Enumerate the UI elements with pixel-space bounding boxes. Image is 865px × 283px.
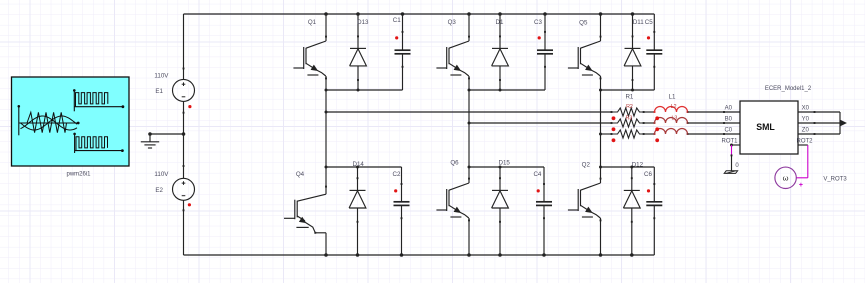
svg-text:ω: ω (783, 174, 789, 183)
red flag on E2 (188, 203, 191, 206)
wire: top DC bus (184, 13, 655, 15)
wire: leg 1 lower rail (326, 166, 402, 168)
wire: phase A output (326, 111, 612, 113)
svg-text:D15: D15 (499, 159, 511, 166)
wire: bottom DC bus (184, 254, 655, 256)
red flag on C2 (394, 189, 397, 192)
red flag on C1 (395, 36, 398, 39)
transistor Q2 (IGBT lower) (568, 167, 602, 255)
svg-text:Q5: Q5 (579, 20, 588, 27)
svg-text:C4: C4 (533, 171, 541, 178)
diode D11 (624, 14, 641, 90)
svg-text:C6: C6 (644, 171, 652, 178)
svg-text:Q6: Q6 (450, 159, 459, 166)
svg-text:Z0: Z0 (802, 128, 810, 134)
node: bottom bus junctions (324, 253, 633, 257)
wire: leg 1 midpoint vertical (325, 90, 327, 167)
red flag on C3 (538, 36, 541, 39)
wire: leg 2 lower rail (469, 166, 544, 168)
wire: leg 2 midpoint vertical (468, 90, 470, 167)
svg-text:C5: C5 (645, 19, 653, 26)
svg-text:Q3: Q3 (448, 19, 457, 26)
wire: Z0 output (798, 123, 840, 135)
pin ticks at SML inputs (723, 111, 725, 135)
capacitor C5 (646, 14, 662, 90)
svg-text:L3: L3 (671, 116, 677, 122)
voltage source E2 110V (173, 178, 195, 200)
node: midpoint junctions (148, 132, 185, 136)
wire: Y0 output (798, 122, 840, 124)
wire: leg 3 midpoint vertical (600, 90, 602, 167)
svg-text:R1: R1 (625, 93, 633, 100)
red flag on C6 (647, 189, 650, 192)
capacitor C1 (395, 14, 411, 90)
wire: mechanical ground stem (731, 155, 733, 170)
pwm output square wave bottom (73, 133, 124, 153)
node: leg 3 lower rail junctions (599, 166, 633, 169)
ground symbol (141, 134, 159, 148)
capacitor C6 (646, 167, 662, 255)
diode D15 (492, 167, 509, 255)
node: leg 2 upper rail junctions (468, 89, 502, 92)
svg-text:Q4: Q4 (296, 171, 305, 178)
mechanical ground plate (724, 171, 737, 174)
svg-text:Y0: Y0 (802, 117, 810, 123)
svg-text:SML: SML (756, 122, 775, 132)
wire: ROT1 pin stub (730, 144, 740, 147)
svg-text:ROT2: ROT2 (796, 139, 813, 145)
speed sensor V_ROT3 (omega meter) (775, 167, 796, 188)
svg-text:110V: 110V (154, 72, 169, 79)
svg-text:D1: D1 (496, 19, 504, 26)
svg-text:X0: X0 (802, 106, 810, 112)
svg-text:E2: E2 (155, 187, 163, 194)
svg-text:ECER_Model1_2: ECER_Model1_2 (765, 86, 812, 92)
svg-text:C0: C0 (724, 128, 732, 134)
wire: left rail lower segment (E2) (183, 200, 185, 255)
wire: X0 output (798, 111, 840, 123)
wire: leg 1 upper rail (326, 89, 403, 91)
red flag on C5 (647, 36, 650, 39)
node: leg 2 lower rail junctions (468, 166, 502, 169)
red flag on E1 (188, 105, 191, 108)
PWM controller block pwm26i1 (12, 77, 130, 166)
pwm sine reference and triangle carrier waveform (18, 105, 80, 135)
node: leg 1 upper rail junctions (325, 89, 360, 92)
svg-text:R2: R2 (626, 104, 633, 110)
diode D12 (623, 167, 640, 255)
transistor Q5 (IGBT upper) (568, 14, 602, 90)
red flag on C4 (537, 189, 540, 192)
pin tick ROT1 ground (731, 154, 733, 156)
svg-text:R3: R3 (626, 116, 633, 122)
svg-text:Q1: Q1 (308, 19, 317, 26)
machine model block SML (ECER_Model1_2) (740, 101, 798, 154)
wire: leg 2 upper rail (469, 89, 545, 91)
svg-text:C2: C2 (393, 171, 401, 178)
voltage source E1 110V (173, 79, 195, 101)
svg-text:pwm26i1: pwm26i1 (66, 172, 91, 178)
wire: ROT2 to speed sensor (magenta) (796, 145, 807, 178)
node: top bus junctions (324, 12, 634, 16)
wire: ROT2 pin stub (798, 144, 808, 146)
transistor Q1 (IGBT upper) (293, 14, 327, 90)
inductor L2 (phase A, L1 group) (654, 107, 740, 113)
inductor L4 (phase C, L1 group) (654, 129, 740, 135)
wire: left rail upper segment (E1) (183, 14, 185, 80)
resistor R3 (phase B, R1 group) (611, 119, 655, 127)
wire: leg 3 lower rail (601, 166, 655, 168)
svg-text:C3: C3 (534, 19, 542, 26)
transistor Q6 (IGBT lower) (436, 167, 470, 255)
wire: phase B output (469, 122, 612, 124)
svg-text:B0: B0 (725, 117, 733, 123)
svg-text:110V: 110V (154, 171, 169, 178)
svg-text:C1: C1 (393, 17, 401, 24)
wire: midpoint to ground (150, 133, 184, 135)
diode D14 (349, 167, 366, 255)
svg-text:V_ROT3: V_ROT3 (823, 176, 847, 182)
node: phase C tap (599, 133, 602, 136)
svg-text:D11: D11 (633, 19, 644, 26)
diode D1 (492, 14, 509, 90)
red current flags at resistors (612, 116, 616, 142)
wire: ROT1 to mechanical ground (magenta) (731, 145, 733, 155)
capacitor C4 (536, 167, 552, 255)
svg-text:+: + (799, 182, 803, 189)
svg-text:L2: L2 (671, 104, 677, 110)
svg-text:D13: D13 (357, 19, 369, 26)
pin ticks on source wires (183, 68, 185, 212)
node: phase A tap (325, 111, 328, 114)
svg-text:L1: L1 (669, 93, 676, 100)
transistor Q4 (IGBT lower) (284, 167, 327, 255)
resistor R4 (phase C, R1 group) (611, 130, 655, 138)
node: phase B tap (468, 122, 471, 125)
transistor Q3 (IGBT upper) (436, 14, 470, 90)
node: leg 3 upper rail junctions (599, 89, 634, 92)
node: leg 1 lower rail junctions (325, 166, 360, 169)
resistor R2 (phase A, R1 group) (611, 108, 655, 116)
svg-text:E1: E1 (155, 88, 163, 95)
wire: left rail between E1 and E2 (183, 101, 185, 178)
wire: phase C output (601, 133, 612, 135)
node: output short junction arrow (840, 120, 846, 126)
capacitor C3 (537, 14, 553, 90)
pwm output square wave top (73, 89, 124, 111)
diode D13 (350, 14, 367, 90)
wire: leg 3 upper rail (601, 89, 655, 91)
svg-text:A0: A0 (725, 106, 733, 112)
svg-text:Q2: Q2 (582, 162, 591, 169)
svg-text:ROT1: ROT1 (721, 139, 738, 145)
inductor L3 (phase B, L1 group) (654, 118, 740, 124)
capacitor C2 (394, 167, 410, 255)
red current flags at inductors (655, 116, 659, 142)
